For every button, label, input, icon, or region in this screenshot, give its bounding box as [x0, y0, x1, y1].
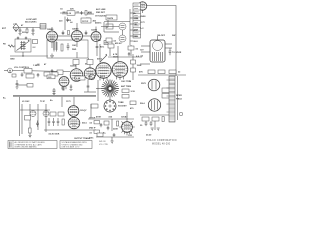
wire [97, 80, 99, 101]
svg-text:TUBE: TUBE [118, 102, 124, 104]
tube V9 pins [117, 77, 124, 80]
svg-text:35W4: 35W4 [140, 15, 146, 18]
box [108, 44, 114, 48]
svg-text:.05 20 150K: .05 20 150K [48, 134, 60, 136]
SECTION: bottom center [44, 97, 135, 144]
SECTION: bottom left [20, 101, 50, 138]
heater hatch [153, 52, 163, 61]
svg-text:L5 OSC: L5 OSC [22, 101, 30, 103]
resistor R7 [131, 60, 136, 64]
capacitor C8 [85, 31, 88, 36]
svg-text:12SQ7: 12SQ7 [80, 110, 87, 112]
box T5 [81, 18, 91, 23]
wire [117, 46, 119, 62]
wire [111, 119, 113, 131]
svg-text:RED: RED [134, 36, 139, 38]
wire [99, 44, 101, 63]
svg-text:35Z5: 35Z5 [117, 75, 123, 77]
capacitor C3 [17, 37, 19, 40]
wire [90, 104, 92, 118]
wire [111, 137, 113, 141]
wire [141, 51, 150, 53]
svg-text:540-1620KC: 540-1620KC [25, 21, 37, 24]
coil core [20, 41, 25, 50]
capacitor C13 with ground [16, 80, 19, 89]
svg-text:FIELD: FIELD [176, 99, 183, 101]
box B2 [44, 72, 50, 76]
SECTION: middle tube row [4, 38, 142, 81]
credit text [146, 139, 177, 145]
svg-text:2ND IF: 2ND IF [89, 128, 96, 130]
capacitor C31 [81, 11, 83, 15]
phono jack J1 [8, 68, 13, 73]
svg-text:35Z5: 35Z5 [141, 83, 147, 85]
wire [51, 42, 53, 48]
capacitor C17 [52, 118, 55, 126]
capacitor C33 [96, 47, 99, 48]
wire [107, 20, 109, 27]
capacitor C10 [51, 69, 54, 73]
ground [111, 141, 114, 143]
dial cable with taps [129, 9, 131, 45]
svg-text:455KC: 455KC [95, 22, 102, 25]
svg-text:100K: 100K [96, 40, 101, 42]
box B1 [26, 74, 34, 78]
IF box T2 [106, 24, 113, 29]
tap 1 [130, 12, 133, 14]
power tube can V10 [150, 40, 165, 62]
comps below wire [104, 121, 109, 125]
wire [122, 30, 124, 35]
wire [104, 21, 130, 23]
legend box 2 [60, 141, 92, 149]
capacitor C30 [63, 12, 67, 15]
resistor R1 [26, 28, 28, 34]
ground [19, 34, 22, 36]
legend box 1 [8, 141, 57, 149]
box stack B11 [162, 88, 170, 93]
socket view X1 [104, 100, 116, 112]
capacitor C18 [57, 118, 60, 126]
wire [88, 58, 90, 60]
coil L5 [53, 42, 58, 52]
capacitor C9 [67, 43, 70, 50]
capacitor C23 [100, 123, 103, 127]
svg-text:SPKR: SPKR [176, 95, 182, 97]
wire [51, 54, 53, 59]
svg-text:ON-OFF: ON-OFF [157, 35, 166, 37]
svg-text:117V: 117V [140, 22, 145, 24]
SECTION: top right [95, 2, 176, 76]
resistor R4 [68, 31, 70, 35]
label left of tube [47, 75, 55, 79]
IF can T3 [73, 60, 79, 65]
junction [22, 55, 23, 56]
wire [4, 70, 8, 72]
wire [85, 13, 94, 15]
svg-text:455 KC: 455 KC [115, 42, 123, 45]
wire [37, 104, 39, 130]
wire top frame [147, 6, 176, 77]
capacitor C20 [113, 133, 116, 137]
tube V3 det/AF [91, 32, 101, 42]
wire [51, 27, 53, 31]
ground [32, 34, 35, 36]
tap 3 [130, 23, 133, 25]
svg-text:1 MEG: 1 MEG [33, 65, 40, 67]
box B13 [142, 117, 149, 121]
wire [108, 56, 142, 58]
box B3 [52, 72, 58, 76]
wire [88, 118, 134, 120]
chassis divider lower rule [13, 96, 96, 98]
capacitor C4 [25, 37, 27, 40]
tube V8 output [96, 63, 112, 79]
wire [84, 91, 96, 93]
tube V11 [59, 77, 69, 87]
wire [154, 121, 156, 130]
svg-text:117V: 117V [66, 101, 71, 103]
comp left of socket [91, 104, 98, 108]
wire [89, 65, 91, 68]
resistor R11 [158, 70, 165, 74]
capacitor C7 [62, 31, 65, 36]
wire [76, 23, 78, 31]
wire [130, 45, 132, 56]
comp [37, 73, 40, 77]
wire [165, 43, 172, 45]
small note [99, 141, 108, 146]
box B5 [75, 76, 85, 80]
strip stubs [167, 80, 170, 112]
box stack B12 [162, 94, 170, 99]
box B9 [50, 112, 56, 116]
wire bottom [140, 114, 169, 116]
svg-text:22K: 22K [70, 9, 74, 11]
tube V13 [68, 117, 80, 129]
wire [104, 31, 119, 33]
socket circle S2 [43, 111, 49, 117]
envelope circle [153, 41, 163, 51]
antenna loop L1 [13, 24, 19, 32]
wire [177, 76, 179, 120]
section frame left [19, 97, 21, 136]
wire [20, 109, 50, 111]
svg-text:1ST IF: 1ST IF [82, 21, 89, 23]
tube V14 [122, 122, 133, 133]
coupling box [57, 70, 63, 75]
SECTION: top-left antenna input [2, 18, 46, 36]
resistor R17 [162, 117, 164, 122]
comp [97, 133, 103, 137]
socket circle S1 [30, 111, 36, 117]
svg-text:BLU: BLU [134, 41, 139, 43]
svg-text:IN MFD UNLESS MARKED.: IN MFD UNLESS MARKED. [15, 146, 38, 149]
variable cap arrow [100, 55, 107, 62]
diode tube V5b [119, 35, 126, 42]
svg-text:6.8K: 6.8K [76, 78, 81, 80]
svg-text:OSC TRIM: OSC TRIM [121, 81, 131, 83]
pins [119, 121, 135, 135]
svg-text:AVC LINE: AVC LINE [96, 8, 106, 11]
tap 6 [130, 40, 133, 42]
wire [45, 104, 47, 132]
wire [61, 97, 63, 107]
capacitor C12 [21, 73, 24, 77]
wire [141, 45, 150, 47]
svg-text:OSC: OSC [89, 138, 94, 140]
tap 5 [130, 35, 133, 37]
wire [138, 74, 186, 76]
tuning arrow [17, 41, 30, 51]
svg-text:T2 IF: T2 IF [40, 101, 46, 103]
capacitor C16 [48, 118, 51, 126]
wire bottom [10, 55, 48, 57]
SECTION: legend [8, 139, 177, 148]
resistor R5 [61, 44, 63, 51]
svg-text:50L6: 50L6 [82, 123, 88, 125]
wire [76, 42, 78, 48]
svg-text:47K: 47K [139, 71, 143, 74]
svg-text:12BE6: 12BE6 [47, 29, 54, 31]
capacitor C19 [107, 126, 110, 130]
svg-text:50C5: 50C5 [100, 76, 106, 78]
tube V9 rectifier [112, 62, 128, 78]
tap 2 [130, 17, 133, 19]
box B10 [58, 112, 64, 116]
chassis divider [13, 94, 96, 96]
wire [109, 44, 111, 56]
wire [95, 27, 97, 32]
coil T1 box [40, 24, 46, 30]
resistor R13 [12, 74, 16, 77]
wire [96, 88, 101, 90]
IF can T4 [87, 60, 93, 65]
wire bus [13, 27, 46, 29]
wire [109, 98, 111, 101]
wire [76, 52, 78, 58]
box B6 [122, 89, 129, 93]
svg-text:SW: SW [172, 35, 175, 37]
box B14 [152, 117, 159, 121]
capacitor C2 [32, 28, 35, 34]
tube V16 [148, 99, 160, 111]
svg-text:12AT6: 12AT6 [107, 17, 114, 20]
wire tube row [58, 35, 72, 37]
svg-text:BLK: BLK [134, 30, 139, 32]
legend text rows [15, 141, 46, 149]
capacitor C24 [150, 121, 153, 126]
terminal strip TS1 [169, 76, 175, 122]
SECTION: mid left tuning [3, 37, 48, 67]
wire [165, 47, 172, 49]
svg-text:AVC: AVC [100, 46, 105, 49]
box B15 [130, 101, 136, 105]
wire [12, 71, 70, 72]
wire [87, 80, 89, 92]
box [106, 38, 112, 42]
svg-text:SW ON: SW ON [99, 141, 106, 143]
ground [151, 128, 154, 130]
svg-text:20-20: 20-20 [146, 135, 152, 137]
cap stack C14 [53, 88, 56, 95]
resistor R15 [62, 119, 64, 125]
resistor R14 [29, 128, 32, 133]
wire [96, 42, 98, 56]
wire [140, 63, 150, 65]
comp [128, 46, 134, 50]
svg-text:50L6: 50L6 [140, 103, 146, 105]
box B7 [122, 95, 129, 99]
wire [103, 22, 105, 32]
svg-text:4.7K: 4.7K [113, 53, 118, 56]
tube V4 pilot [138, 2, 147, 11]
tube V2 IF amp [72, 31, 83, 42]
wire [101, 26, 119, 28]
svg-text:MODEL 48-200: MODEL 48-200 [152, 144, 171, 146]
svg-text:12BA6: 12BA6 [72, 28, 79, 31]
wire [21, 104, 23, 134]
svg-text:PHILCO CORPORATION: PHILCO CORPORATION [146, 139, 177, 142]
tap 4 [130, 29, 133, 31]
box B8 [25, 116, 31, 121]
box L10 [67, 11, 75, 15]
svg-text:GRN: GRN [134, 18, 139, 20]
svg-text:150K: 150K [137, 65, 142, 67]
svg-text:12AT6: 12AT6 [91, 29, 98, 32]
capacitor C1 [19, 28, 22, 34]
SECTION: top tube row [47, 9, 102, 42]
tube V8 pins [100, 78, 107, 81]
terminal board TB1 [133, 3, 141, 38]
resistor R8 [131, 68, 136, 72]
wire [96, 136, 134, 138]
tuning gang starburst [101, 80, 119, 98]
capacitor C21 [145, 121, 148, 126]
ground [28, 136, 31, 138]
resistor R10 [148, 70, 155, 74]
wire [83, 35, 92, 37]
tube V12 [68, 106, 79, 117]
tube V6 AF amp [70, 69, 83, 82]
svg-text:12V: 12V [140, 50, 144, 52]
capacitor C35 [62, 87, 64, 91]
ground [157, 128, 160, 130]
svg-text:PAD: PAD [72, 48, 77, 51]
comp B4 [27, 84, 33, 88]
trimmer circle [89, 74, 95, 80]
svg-text:ANT TRIM: ANT TRIM [121, 85, 131, 88]
resistor R16 [117, 121, 119, 126]
wire [64, 17, 66, 31]
wire [17, 84, 27, 86]
svg-text:1ST AUDIO: 1ST AUDIO [95, 14, 106, 17]
wire [29, 104, 31, 135]
text box [104, 41, 112, 45]
capacitor C34 [128, 52, 130, 56]
wire [75, 65, 77, 69]
SECTION: center starburst [3, 72, 136, 136]
svg-text:OSC: OSC [72, 45, 77, 47]
capacitor C36 [70, 85, 73, 91]
tube V15 [148, 79, 160, 91]
wire [126, 112, 128, 122]
svg-text:SOCKET: SOCKET [118, 106, 127, 108]
capacitor C11 [169, 48, 172, 55]
capacitor C15 [36, 121, 39, 127]
tube V1 converter [47, 31, 58, 42]
capacitor C32 [66, 18, 68, 23]
SECTION: bottom right [128, 76, 183, 137]
wire right column [132, 54, 134, 80]
wire [44, 129, 96, 131]
resistor R30 [85, 11, 87, 16]
wire [22, 52, 24, 56]
wire [157, 36, 159, 40]
legend bracket [12, 141, 14, 149]
pins [62, 86, 66, 90]
svg-text:2ND DET: 2ND DET [96, 12, 106, 14]
resistor R12 [169, 70, 176, 74]
volume pot R6 [24, 69, 32, 74]
row box [94, 121, 100, 124]
svg-text:470K: 470K [96, 116, 101, 119]
tube V7 output [84, 68, 96, 80]
tuner box L3 [15, 39, 31, 52]
diode tube V5a [119, 23, 126, 30]
terminal board labels [134, 5, 139, 36]
shield box [47, 40, 88, 58]
svg-text:220K: 220K [113, 129, 118, 131]
SECTION: right rectifier [138, 36, 186, 75]
svg-text:47K: 47K [88, 11, 92, 14]
svg-text:TO SPKR: TO SPKR [172, 52, 182, 54]
comp right of box [33, 40, 38, 44]
starburst hub [108, 87, 112, 91]
coupling box T6 [106, 15, 117, 20]
resistor R3 [8, 45, 15, 47]
capacitor C37 [87, 86, 90, 87]
wire [73, 97, 75, 106]
svg-text:LINE VOLTAGE 117 V.: LINE VOLTAGE 117 V. [62, 146, 81, 149]
small circle [179, 112, 183, 116]
svg-text:VOL CTRL: VOL CTRL [99, 144, 108, 146]
wire [142, 10, 144, 13]
svg-text:GND: GND [10, 59, 15, 61]
top chain row 1 [60, 12, 92, 14]
